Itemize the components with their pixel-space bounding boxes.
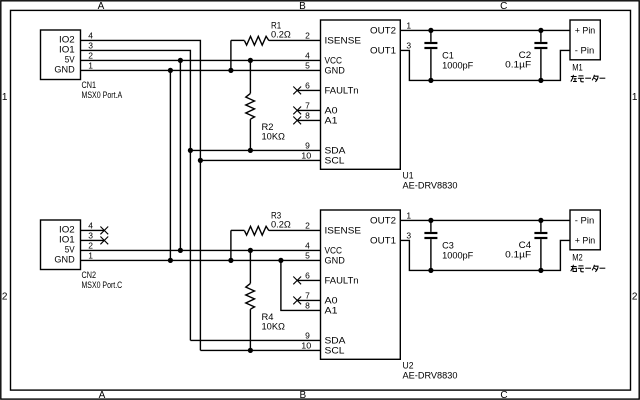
wire 5V to R2 top [249, 60, 251, 93]
svg-text:2: 2 [88, 50, 93, 60]
svg-text:9: 9 [305, 330, 310, 340]
junction R4 top on 5V [248, 248, 253, 253]
svg-text:10: 10 [301, 150, 311, 160]
svg-text:0.2Ω: 0.2Ω [271, 30, 291, 40]
C1 value labels [442, 51, 474, 71]
junction C1 top [428, 28, 433, 33]
svg-text:1: 1 [632, 92, 638, 103]
R3 value labels [271, 210, 291, 229]
svg-text:ISENSE: ISENSE [325, 225, 362, 235]
junction GND drop lower [168, 258, 173, 263]
svg-text:10KΩ: 10KΩ [262, 132, 286, 142]
wire R1 to U1 ISENSE pin2 [269, 39, 321, 41]
U1 reference labels [403, 171, 458, 191]
wire R3 to U2 ISENSE pin2 [269, 229, 321, 231]
wire 5V drop to lower channel [179, 60, 181, 250]
wire U1 A1 stub pin8 [297, 119, 321, 121]
junction R3 leg on GND [228, 258, 233, 263]
U1 pin numbers [301, 20, 411, 160]
wire CN2 pin3 IO1 stub [81, 239, 104, 241]
op IC U1 AE-DRV8830 body [321, 20, 401, 169]
svg-text:A1: A1 [325, 305, 338, 315]
svg-text:8: 8 [305, 110, 310, 120]
CN2 reference and name labels [82, 270, 123, 290]
svg-text:B: B [299, 1, 306, 12]
wire R3 left leg down to GND [230, 230, 232, 260]
wire U2 FAULTn stub pin6 [297, 279, 321, 281]
junction C3 top [428, 218, 433, 223]
R1 value labels [271, 20, 291, 39]
svg-text:GND: GND [54, 254, 75, 264]
C4 value labels [505, 240, 532, 260]
svg-text:R4: R4 [262, 312, 274, 322]
junction C4 bottom [538, 268, 543, 273]
capacitor C1 [430, 30, 432, 80]
M1 name label hidari motor (JP) [571, 75, 606, 82]
op IC U2 AE-DRV8830 body [321, 210, 401, 359]
wire net SDA: CN1 pin3 IO1 right then down to U2 [81, 50, 190, 340]
svg-text:R2: R2 [262, 122, 274, 132]
svg-text:1000pF: 1000pF [442, 60, 474, 70]
svg-text:MSX0 Port.C: MSX0 Port.C [82, 280, 123, 290]
svg-text:1: 1 [406, 20, 411, 30]
wire U2 A0 stub pin7 [297, 299, 321, 301]
junction R1 leg on GND [228, 68, 233, 73]
svg-text:5: 5 [305, 250, 310, 260]
svg-text:0.2Ω: 0.2Ω [271, 220, 291, 230]
svg-text:C2: C2 [519, 50, 532, 60]
wire U2 OUT1 pin3 down along return rail to M2 plus pin [401, 240, 571, 270]
svg-text:C1: C1 [442, 51, 454, 61]
junction 5V drop [178, 58, 183, 63]
wire net GND: CN1 pin1 to U1 GND pin5 [81, 69, 321, 71]
svg-text:9: 9 [305, 140, 310, 150]
svg-text:B: B [299, 390, 306, 400]
svg-text:1: 1 [88, 60, 93, 70]
CN1 reference and name labels [82, 80, 123, 100]
svg-text:+ Pin: + Pin [575, 236, 595, 246]
no-connect X on U1 A0 [293, 107, 301, 115]
wire SDA branch to U1 pin9 [190, 149, 321, 151]
wire R4 bottom to SCL [249, 309, 251, 350]
svg-text:MSX0 Port.A: MSX0 Port.A [82, 90, 123, 100]
svg-text:C3: C3 [442, 241, 454, 251]
svg-text:1: 1 [406, 210, 411, 220]
junction C4 top [538, 218, 543, 223]
svg-text:3: 3 [88, 230, 93, 240]
CN1 pin numbers 4 3 2 1 [88, 30, 93, 70]
wire net 5V lower: CN2 pin2 to U2 VCC [81, 249, 321, 251]
capacitor C3 [430, 220, 432, 270]
wire 5V to R4 top [249, 250, 251, 283]
capacitor C4 [540, 220, 542, 270]
junction R2 bottom on SDA [248, 148, 253, 153]
svg-text:OUT1: OUT1 [370, 45, 396, 55]
junction SCL at x200 [198, 158, 203, 163]
svg-text:0.1µF: 0.1µF [505, 250, 532, 260]
wire net GND lower: CN2 pin1 to U2 GND [81, 259, 321, 261]
svg-text:2: 2 [2, 292, 8, 303]
junction C2 bottom [538, 78, 543, 83]
svg-text:IO2: IO2 [59, 224, 75, 234]
motor connector M1 [570, 20, 600, 60]
svg-text:A0: A0 [325, 105, 338, 115]
junction C1 bottom [428, 78, 433, 83]
svg-text:U2: U2 [403, 361, 414, 371]
motor connector M2 [570, 210, 600, 250]
svg-text:CN1: CN1 [82, 80, 97, 90]
CN2 pin numbers 4 3 2 1 [88, 220, 93, 260]
resistor R4 [246, 283, 255, 309]
M2 name label migi motor (JP) [571, 265, 606, 272]
svg-text:IO1: IO1 [59, 44, 75, 54]
svg-text:VCC: VCC [325, 245, 343, 255]
junction C3 bottom [428, 268, 433, 273]
svg-text:OUT1: OUT1 [370, 235, 396, 245]
svg-text:A0: A0 [325, 295, 338, 305]
no-connect X on U1 A1 [293, 117, 301, 125]
svg-text:4: 4 [88, 30, 93, 40]
svg-text:5V: 5V [65, 54, 75, 64]
svg-text:C4: C4 [519, 240, 532, 250]
svg-text:4: 4 [305, 240, 310, 250]
wire SCL branch to U1 pin10 [200, 159, 321, 161]
wire U1 OUT2 pin1 to M1 plus pin [401, 29, 571, 31]
svg-text:SCL: SCL [325, 345, 345, 355]
svg-text:U1: U1 [403, 171, 414, 181]
wire GND drop to lower channel [169, 70, 171, 260]
svg-text:C: C [500, 1, 507, 12]
wire U1 FAULTn stub pin6 [297, 89, 321, 91]
wire R2 bottom to SDA [249, 119, 251, 150]
junction 5V drop lower [178, 248, 183, 253]
svg-text:A: A [99, 390, 106, 400]
resistor R3 [231, 229, 245, 231]
svg-text:2: 2 [305, 220, 310, 230]
junction R2 top on 5V [248, 58, 253, 63]
svg-text:4: 4 [305, 50, 310, 60]
junction C2 top [538, 28, 543, 33]
svg-text:OUT2: OUT2 [370, 25, 396, 35]
C3 value labels [442, 241, 474, 261]
svg-text:IO2: IO2 [59, 34, 75, 44]
svg-text:GND: GND [54, 64, 75, 74]
svg-text:7: 7 [305, 100, 310, 110]
svg-text:CN2: CN2 [82, 270, 97, 280]
svg-text:SCL: SCL [325, 155, 345, 165]
svg-text:1: 1 [88, 250, 93, 260]
svg-text:AE-DRV8830: AE-DRV8830 [403, 180, 458, 190]
no-connect X on U1 FAULTn [293, 87, 301, 95]
svg-text:5: 5 [305, 60, 310, 70]
svg-text:A: A [98, 1, 105, 12]
junction A1 tie on GND [278, 258, 283, 263]
svg-text:2: 2 [632, 292, 638, 303]
junction SDA at x190 [188, 148, 193, 153]
svg-text:1: 1 [2, 92, 8, 103]
svg-text:6: 6 [305, 270, 310, 280]
R2 value labels [262, 122, 286, 142]
wire GND tie to U2 A1 pin8 [281, 260, 321, 310]
connector CN1 [41, 30, 81, 80]
svg-text:6: 6 [305, 80, 310, 90]
C2 value labels [505, 50, 532, 70]
wire CN2 pin4 IO2 stub [81, 229, 104, 231]
wire SDA to U2 pin9 [190, 339, 321, 341]
svg-text:A1: A1 [325, 115, 338, 125]
wire U1 A0 stub pin7 [297, 109, 321, 111]
svg-text:FAULTn: FAULTn [325, 85, 359, 95]
svg-text:8: 8 [305, 300, 310, 310]
U2 reference labels [403, 361, 458, 381]
svg-text:3: 3 [406, 40, 411, 50]
svg-text:1000pF: 1000pF [442, 250, 474, 260]
wire net 5V: CN1 pin2 to U1 VCC pin4 [81, 59, 321, 61]
wire U1 OUT1 pin3 down along return rail to M1 minus pin [401, 50, 571, 80]
svg-text:SDA: SDA [325, 335, 346, 345]
svg-text:C: C [500, 390, 507, 400]
svg-text:M1: M1 [572, 63, 583, 73]
svg-text:0.1µF: 0.1µF [505, 60, 532, 70]
resistor R1 [231, 39, 245, 41]
resistor R2 [246, 93, 255, 119]
svg-text:SDA: SDA [325, 145, 346, 155]
M1 reference label [572, 63, 583, 73]
wire net SCL: CN1 pin4 IO2 right then down to U2 [81, 40, 200, 350]
svg-text:4: 4 [88, 220, 93, 230]
wire U2 OUT2 pin1 to M2 minus pin [401, 219, 571, 221]
M2 reference label [572, 253, 583, 263]
svg-text:- Pin: - Pin [575, 216, 594, 226]
capacitor C2 [540, 30, 542, 80]
connector CN2 [41, 220, 81, 270]
svg-text:GND: GND [325, 255, 346, 265]
svg-text:10KΩ: 10KΩ [262, 322, 286, 332]
svg-text:5V: 5V [65, 244, 75, 254]
R4 value labels [262, 312, 286, 332]
wire SCL to U2 pin10 [200, 349, 321, 351]
junction R4 bottom on SCL [248, 348, 253, 353]
svg-text:7: 7 [305, 290, 310, 300]
svg-text:GND: GND [325, 65, 346, 75]
no-connect X on U2 FAULTn [293, 277, 301, 285]
svg-text:2: 2 [305, 30, 310, 40]
svg-text:IO1: IO1 [59, 234, 75, 244]
svg-text:- Pin: - Pin [575, 46, 594, 56]
no-connect X on CN2 IO1 [100, 237, 108, 245]
svg-text:+ Pin: + Pin [575, 26, 595, 36]
svg-text:3: 3 [406, 230, 411, 240]
svg-text:3: 3 [88, 40, 93, 50]
svg-text:10: 10 [301, 340, 311, 350]
svg-text:FAULTn: FAULTn [325, 275, 359, 285]
svg-text:OUT2: OUT2 [370, 215, 396, 225]
svg-text:M2: M2 [572, 253, 583, 263]
svg-text:AE-DRV8830: AE-DRV8830 [403, 370, 458, 380]
junction GND drop [168, 68, 173, 73]
svg-text:VCC: VCC [325, 55, 343, 65]
no-connect X on CN2 IO2 [100, 227, 108, 235]
U2 pin numbers [301, 210, 411, 350]
no-connect X on U2 A0 [293, 297, 301, 305]
svg-text:ISENSE: ISENSE [325, 35, 362, 45]
wire R1 left leg down to GND [230, 40, 232, 70]
svg-text:2: 2 [88, 240, 93, 250]
